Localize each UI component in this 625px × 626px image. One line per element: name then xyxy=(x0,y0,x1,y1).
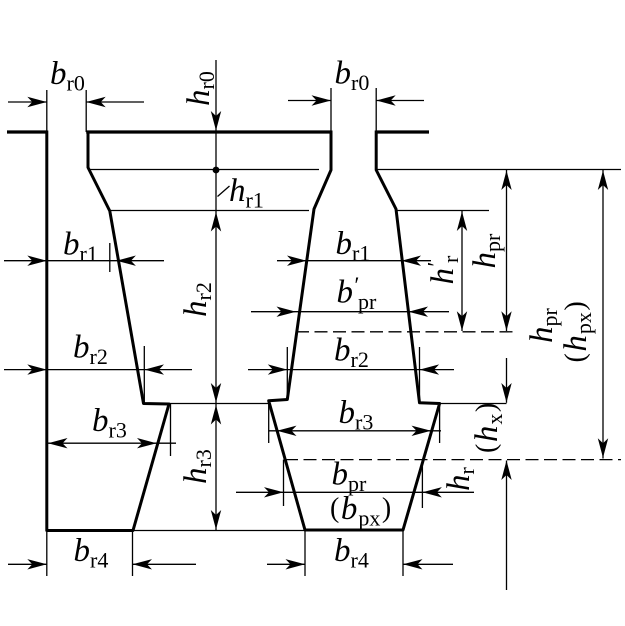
svg-text:(hx): (hx) xyxy=(469,403,507,453)
